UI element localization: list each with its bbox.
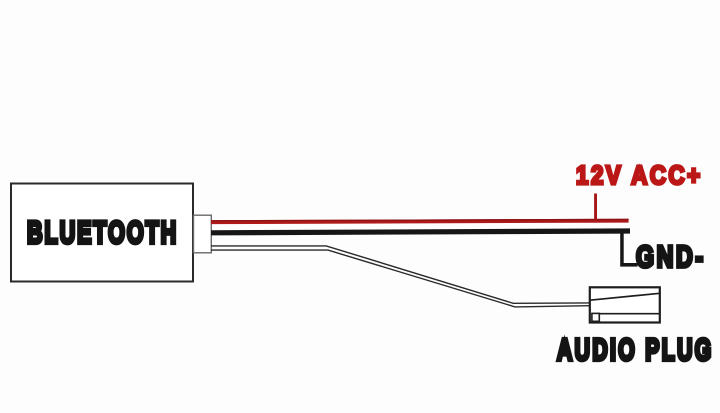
BLUETOOTH label bbox=[27, 217, 178, 249]
black wire GND bbox=[211, 228, 630, 235]
connector stub on bluetooth module bbox=[194, 215, 212, 253]
12V ACC+ label bbox=[576, 162, 703, 188]
audio plug lower inner line bbox=[598, 313, 659, 315]
red wire darker top edge bbox=[211, 219, 629, 222]
red wire 12V ACC+ bbox=[211, 219, 629, 224]
gnd drop wire vertical bbox=[620, 233, 624, 263]
audio plug body bbox=[590, 287, 660, 322]
audio plug slanted inner line bbox=[590, 293, 660, 300]
GND- label bbox=[636, 243, 706, 273]
audio cable upper line bbox=[211, 246, 590, 303]
audio cable lower line bbox=[211, 250, 590, 307]
red tap line to 12V ACC+ label bbox=[594, 194, 597, 221]
AUDIO PLUG label bbox=[557, 335, 714, 366]
gnd drop wire horizontal stub bbox=[620, 263, 637, 267]
bluetooth module box bbox=[11, 184, 193, 282]
audio plug small square detail bbox=[592, 313, 599, 321]
